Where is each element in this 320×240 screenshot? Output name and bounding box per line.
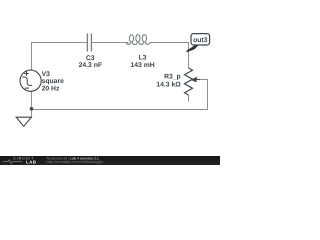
svg-text:24.3 nF: 24.3 nF (79, 62, 102, 69)
svg-text:C3: C3 (86, 55, 95, 62)
svg-text:R3_p: R3_p (164, 74, 181, 81)
svg-text:20 Hz: 20 Hz (42, 86, 60, 93)
svg-text:L3: L3 (139, 55, 147, 62)
svg-text:143 mH: 143 mH (131, 62, 155, 69)
svg-text:http://circuitlab.com/c/4k64au: http://circuitlab.com/c/4k64aueggfv (47, 160, 104, 164)
svg-text:square: square (42, 78, 65, 85)
svg-text:14.3 kΩ: 14.3 kΩ (156, 81, 181, 88)
svg-text:LAB: LAB (26, 160, 37, 165)
svg-text:out3: out3 (193, 37, 208, 44)
